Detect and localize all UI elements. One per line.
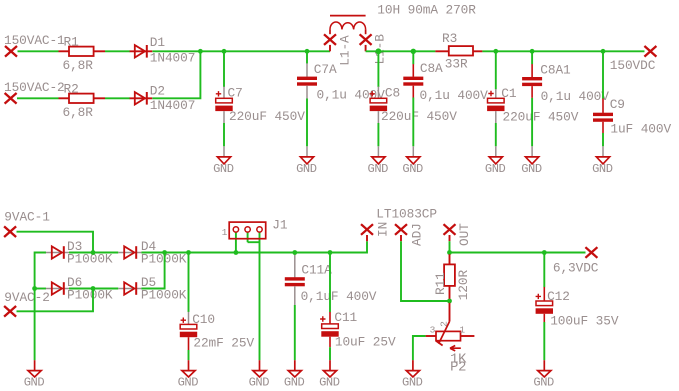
svg-text:1: 1 (459, 324, 465, 335)
diode D3 P1000K (46, 239, 113, 267)
wire D6 to D5 (69, 288, 118, 290)
node C11A (292, 250, 297, 255)
svg-text:R11: R11 (433, 272, 448, 295)
capacitor C12 100uF 35V (536, 253, 619, 361)
pin IN (361, 222, 391, 241)
wire 150VAC-1 to R1 (18, 50, 59, 52)
wire P2 pin3 to ground (413, 336, 426, 360)
capacitor C11A 0,1uF 400V (285, 253, 377, 361)
pin 150VDC (610, 46, 657, 73)
svg-text:D2: D2 (150, 83, 165, 98)
wire R2 to D2 (105, 97, 130, 99)
svg-text:10H 90mA 270R: 10H 90mA 270R (377, 3, 476, 18)
node J1 pin1 (234, 250, 239, 255)
capacitor C8A1 0,1u 400V (522, 51, 609, 146)
wire row2 left (35, 288, 46, 290)
svg-text:150VDC: 150VDC (610, 58, 656, 73)
ground under C1 (485, 146, 506, 176)
capacitor C8 220uF 450V (370, 51, 458, 146)
diode D1 1N4007 (130, 35, 196, 66)
svg-text:220uF 450V: 220uF 450V (229, 109, 305, 124)
svg-text:C1: C1 (501, 86, 517, 101)
wire L1-B to R3 (366, 50, 436, 52)
svg-text:22mF 25V: 22mF 25V (193, 335, 254, 350)
capacitor C9 1uF 400V (593, 51, 671, 146)
svg-text:R3: R3 (442, 31, 457, 46)
svg-text:R2: R2 (64, 82, 79, 97)
pin ADJ (395, 223, 425, 246)
node C8 (376, 48, 382, 54)
capacitor C10 22mF 25V (180, 253, 255, 361)
capacitor C7A 0,1u 400V (297, 51, 385, 146)
wire R3 to 150VDC (482, 50, 644, 52)
resistor R3 33R (435, 31, 482, 71)
pin 9VAC-2 (4, 290, 50, 317)
resistor R11 120R (433, 254, 471, 300)
svg-text:10uF 25V: 10uF 25V (335, 335, 396, 350)
node D5 join (162, 250, 167, 255)
node C11 (328, 250, 333, 255)
wire R1 to D1 (105, 50, 130, 52)
diode D4 P1000K (118, 239, 186, 267)
resistor R2 6,8R (59, 82, 106, 120)
svg-text:1N4007: 1N4007 (150, 51, 195, 66)
node 9VAC-2 join (91, 286, 96, 291)
potentiometer P2 1K (426, 303, 475, 376)
wire OUT down (449, 241, 451, 252)
wire OUT to 6,3VDC (450, 252, 586, 254)
node ADJ junction (447, 299, 452, 304)
svg-text:0,1u 400V: 0,1u 400V (541, 89, 610, 104)
capacitor C8A 0,1u 400V (403, 51, 488, 146)
svg-text:220uF 450V: 220uF 450V (503, 110, 579, 125)
ground under C9 (592, 146, 613, 176)
svg-text:100uF 35V: 100uF 35V (550, 313, 619, 328)
wire D4 to IN rail (141, 241, 367, 252)
svg-text:C11A: C11A (301, 263, 332, 278)
svg-text:33R: 33R (445, 56, 468, 71)
svg-text:1N4007: 1N4007 (150, 98, 195, 113)
svg-text:9VAC-1: 9VAC-1 (4, 210, 50, 225)
diode D5 P1000K (118, 275, 186, 303)
svg-text:6,8R: 6,8R (63, 58, 94, 73)
svg-text:1uF 400V: 1uF 400V (610, 121, 671, 136)
resistor R1 6,8R (59, 35, 106, 73)
node row2 left (32, 286, 37, 291)
svg-text:C7: C7 (228, 86, 243, 101)
wire 150VAC-2 to R2 (17, 97, 59, 99)
ground under C11 (319, 360, 340, 389)
svg-text:C12: C12 (547, 289, 570, 304)
svg-text:0,1u 400V: 0,1u 400V (420, 88, 489, 103)
svg-text:0,1uF 400V: 0,1uF 400V (301, 289, 377, 304)
connector J1 (222, 218, 288, 361)
ground under C7A (296, 146, 317, 176)
svg-text:IN: IN (376, 222, 391, 237)
svg-text:ADJ: ADJ (410, 223, 425, 246)
capacitor C1 220uF 450V (487, 51, 579, 146)
node C8A (411, 49, 416, 54)
ground under C8A (402, 146, 423, 176)
inductor L1 10H 90mA 270R (330, 3, 476, 35)
svg-text:120R: 120R (456, 270, 471, 301)
ground under C8A1 (521, 146, 542, 176)
svg-text:OUT: OUT (457, 223, 472, 246)
node C10 (186, 250, 191, 255)
svg-text:C11: C11 (334, 310, 357, 325)
node C12 (542, 250, 547, 255)
svg-text:150VAC-2: 150VAC-2 (4, 80, 65, 95)
svg-text:220uF 450V: 220uF 450V (381, 109, 457, 124)
node 9VAC-1 join (91, 250, 96, 255)
svg-text:6,3VDC: 6,3VDC (553, 260, 599, 275)
svg-text:1: 1 (222, 227, 228, 238)
node C7 (222, 49, 227, 54)
node OUT (447, 250, 452, 255)
svg-text:D1: D1 (150, 35, 166, 50)
wire ADJ to R11 bottom (401, 241, 450, 301)
ground under C8 (368, 146, 389, 176)
svg-text:C7A: C7A (314, 62, 337, 77)
wire 9VAC-1 to bridge (17, 232, 94, 253)
wire D2 up to top rail (152, 51, 200, 98)
pin 9VAC-1 (4, 210, 50, 237)
node C8A1 (530, 49, 535, 54)
svg-text:3: 3 (430, 324, 436, 335)
node D2 join (198, 49, 203, 54)
diode D2 1N4007 (130, 83, 196, 113)
svg-text:C8A: C8A (420, 61, 443, 76)
node C7A (305, 49, 310, 54)
svg-text:C8A1: C8A1 (540, 62, 571, 77)
svg-text:P1000K: P1000K (67, 287, 113, 302)
svg-text:C9: C9 (610, 97, 625, 112)
diode D6 P1000K (46, 275, 113, 303)
wire D3 to D4 (69, 252, 118, 254)
wire bridge left rail (35, 253, 46, 361)
capacitor C7 220uF 450V (215, 51, 305, 146)
pin 150VAC-1 (4, 33, 65, 57)
pin 6,3VDC (553, 247, 599, 275)
pin L1-B (360, 34, 388, 65)
ground under J1 pin3 (249, 360, 270, 389)
pin OUT (444, 223, 473, 246)
wire D1 to L1-A (152, 50, 330, 52)
ground under C12 (533, 360, 554, 389)
node C9 (601, 49, 606, 54)
capacitor C11 10uF 25V (320, 253, 396, 361)
svg-text:P1000K: P1000K (67, 251, 113, 266)
svg-text:C10: C10 (192, 312, 215, 327)
svg-text:L1-A: L1-A (337, 35, 352, 66)
pin 150VAC-2 (4, 80, 65, 104)
pin L1-A (324, 34, 352, 65)
svg-text:R1: R1 (64, 35, 80, 50)
svg-text:2: 2 (439, 321, 450, 327)
ground under P2 (402, 360, 423, 389)
svg-text:J1: J1 (272, 218, 288, 233)
svg-text:C8: C8 (385, 86, 400, 101)
ground under C10 (178, 360, 199, 389)
svg-text:P1000K: P1000K (141, 287, 187, 302)
wire D5 up to row1 (141, 253, 164, 289)
svg-text:P2: P2 (450, 361, 466, 376)
ground under C11A (284, 360, 305, 389)
svg-text:9VAC-2: 9VAC-2 (4, 290, 49, 305)
svg-text:6,8R: 6,8R (63, 105, 94, 120)
wire 9VAC-2 to bridge (17, 289, 94, 312)
node C1 (493, 49, 498, 54)
svg-text:LT1083CP: LT1083CP (376, 207, 437, 222)
svg-text:150VAC-1: 150VAC-1 (4, 33, 65, 48)
ground under C7 (213, 146, 234, 176)
ground left rail (24, 360, 45, 389)
